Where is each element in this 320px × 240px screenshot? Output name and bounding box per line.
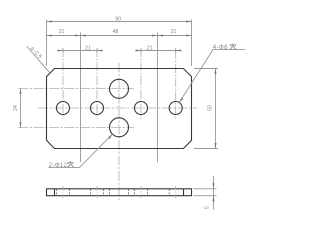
glyph 穴 (hole) (68, 161, 74, 167)
vertical centerline main x=119 (118, 63, 120, 201)
horizontal centerline big hole bottom y=127.3 (18, 127, 134, 129)
svg-text:5: 5 (205, 206, 211, 209)
dimension 90 (47, 17, 192, 23)
dimension 21 right (row2) (158, 29, 192, 36)
hole4 vertical centerline x=175.7 (175, 50, 177, 119)
side view hidden hole edges (57, 189, 170, 196)
svg-text:21: 21 (59, 29, 65, 35)
hole2 vertical centerline x=97 (96, 48, 98, 119)
dimension 50 right vertical (194, 69, 218, 149)
svg-text:21: 21 (147, 46, 153, 52)
dimension 21 left (row2) (47, 29, 81, 36)
leader 4-C5 chamfer note (27, 46, 50, 73)
hole H2 Φ8 (91, 102, 104, 115)
horizontal centerline small holes y=108 (38, 107, 197, 109)
svg-text:90: 90 (115, 17, 121, 23)
hole B2 Φ12 bottom (110, 118, 129, 137)
svg-text:24: 24 (13, 105, 19, 111)
side view chamfer line left (54, 189, 56, 196)
hole B1 Φ12 top (110, 79, 129, 98)
svg-text:21: 21 (85, 46, 91, 52)
hole H4 Φ8 (169, 102, 182, 115)
horizontal centerline big hole top y=88.8 (18, 88, 134, 90)
hole H3 Φ8 (135, 102, 148, 115)
svg-text:50: 50 (208, 105, 214, 111)
extension line plate left x=46 (46, 20, 48, 67)
extension line group center right x=157.9 (157, 33, 159, 163)
dimension 21 hole1-hole2 (row3) (58, 46, 103, 53)
svg-text:48: 48 (113, 29, 119, 35)
svg-text:21: 21 (171, 29, 177, 35)
svg-text:2-Φ12: 2-Φ12 (49, 162, 68, 169)
extension line group center left x=80.5 (80, 33, 82, 163)
side view bar outline (47, 189, 192, 196)
hole3 vertical centerline x=141 (140, 48, 142, 119)
side view chamfer line right (183, 189, 185, 196)
hole H1 Φ8 (57, 102, 70, 115)
plate outline front view (47, 69, 192, 149)
extension line plate right x=192 (191, 20, 193, 67)
glyph 穴 (hole) (230, 43, 236, 49)
dimension 24 left vertical (13, 89, 22, 128)
dimension 48 (row2) (81, 29, 158, 36)
dimension 5 thickness (194, 176, 217, 210)
hole1 vertical centerline x=63 (62, 48, 64, 119)
svg-text:4-Φ8: 4-Φ8 (213, 44, 228, 51)
leader 4-Φ8穴 (179, 43, 245, 102)
side view hole centerlines (63, 186, 176, 199)
dimension 21 hole3-hole4 (row3) (136, 46, 182, 53)
leader 2-Φ12穴 (49, 134, 113, 169)
